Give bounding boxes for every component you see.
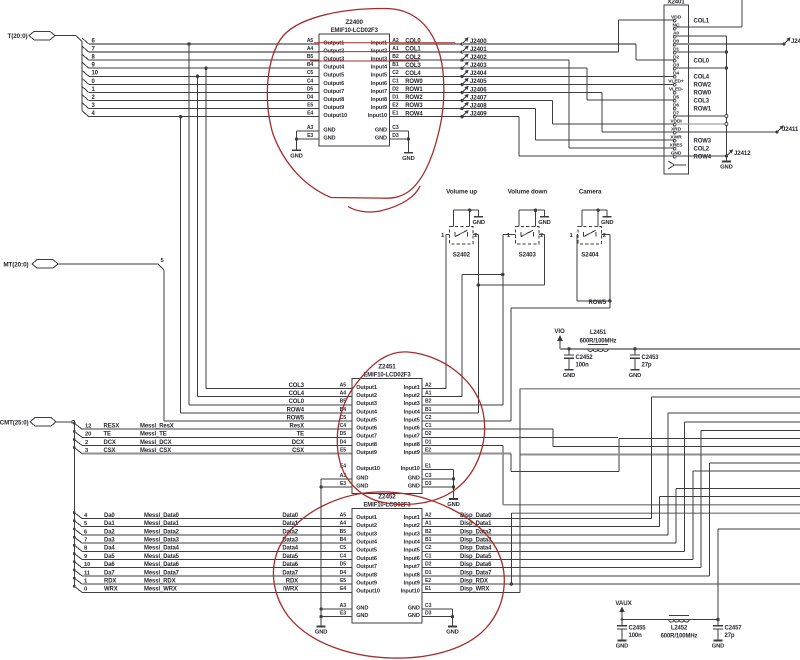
svg-text:ResX: ResX xyxy=(290,424,305,430)
wire A3-E3 to ground xyxy=(297,130,320,132)
svg-text:Output8: Output8 xyxy=(356,572,377,578)
svg-text:Disp_WRX: Disp_WRX xyxy=(460,587,489,593)
bus branch CSX xyxy=(73,446,76,449)
wire port J2410 from D0 xyxy=(676,43,784,45)
svg-text:Input3: Input3 xyxy=(404,401,420,407)
wire COL3 to X2401 D5 xyxy=(462,67,587,69)
svg-text:COL3: COL3 xyxy=(694,99,710,105)
svg-text:Camera: Camera xyxy=(579,189,602,196)
wire COL4 to X2401 D4 xyxy=(462,75,673,77)
svg-text:GND: GND xyxy=(375,127,387,133)
wire net TE to Z2451 xyxy=(82,436,352,438)
wire net DCX to Z2451 xyxy=(82,444,352,446)
bus branch Da3 xyxy=(73,536,76,539)
svg-text:D3: D3 xyxy=(392,133,399,139)
svg-text:Output4: Output4 xyxy=(356,540,378,546)
ground symbol of S2402 xyxy=(474,216,483,218)
wire net bit3 to Z2400 pin xyxy=(89,108,319,110)
wire E2 row xyxy=(422,453,511,455)
wire Disp_WRX to right edge xyxy=(520,388,800,390)
svg-text:E2: E2 xyxy=(425,578,431,584)
svg-text:C3: C3 xyxy=(425,473,432,479)
svg-text:Messl_Data4: Messl_Data4 xyxy=(144,546,180,552)
svg-text:Input2: Input2 xyxy=(404,393,420,399)
svg-text:Disp_RDX: Disp_RDX xyxy=(460,579,488,585)
svg-text:B5: B5 xyxy=(307,54,314,60)
svg-text:Messl_ResX: Messl_ResX xyxy=(140,424,174,430)
wire NC pin from top edge xyxy=(741,0,743,27)
svg-text:27p: 27p xyxy=(642,363,652,369)
wire port J2411 from XRD xyxy=(676,131,777,133)
svg-text:C2452: C2452 xyxy=(576,355,594,361)
svg-text:J2410: J2410 xyxy=(791,38,800,45)
bus branch bit 6 xyxy=(82,38,89,44)
svg-text:E5: E5 xyxy=(340,578,346,584)
svg-text:Output3: Output3 xyxy=(356,401,377,407)
wire net ROW3 from Z2400 to port xyxy=(389,108,462,110)
svg-text:ROW2: ROW2 xyxy=(694,83,712,89)
svg-text:VLED-: VLED- xyxy=(669,86,684,92)
svg-text:Output5: Output5 xyxy=(356,417,377,423)
svg-text:Disp_Data3: Disp_Data3 xyxy=(460,538,492,544)
red strike line Output2 of Z2400 xyxy=(318,51,417,53)
svg-text:E1: E1 xyxy=(425,463,431,469)
ground symbol below Z2452 right xyxy=(448,626,457,628)
svg-text:C3: C3 xyxy=(392,125,399,131)
wire VIO rail xyxy=(560,348,800,350)
wire E2 leg to right edge xyxy=(619,438,800,440)
svg-text:Output7: Output7 xyxy=(356,434,377,440)
svg-text:A5: A5 xyxy=(307,38,314,44)
red ellipse around Z2452 xyxy=(273,492,504,658)
capacitor C2453 27p xyxy=(633,347,636,350)
wire riser Disp_Data3 xyxy=(675,489,677,544)
svg-text:Input6: Input6 xyxy=(404,426,420,432)
svg-text:Da5: Da5 xyxy=(104,554,115,560)
svg-text:D4: D4 xyxy=(307,94,314,100)
svg-text:E3: E3 xyxy=(340,611,346,617)
wire E2 jog xyxy=(511,470,619,472)
wire net bit1 to Z2400 pin xyxy=(89,91,319,93)
wire net RESX to Z2451 xyxy=(82,428,352,430)
wire COL1 to X2401 VDD xyxy=(462,51,619,53)
svg-text:Input8: Input8 xyxy=(404,442,420,448)
svg-text:C2: C2 xyxy=(425,415,432,421)
wire net Disp_Data4 xyxy=(422,550,685,552)
svg-text:GND: GND xyxy=(315,630,328,636)
svg-text:Input5: Input5 xyxy=(371,73,387,79)
svg-text:Messl_Data0: Messl_Data0 xyxy=(144,513,180,519)
svg-text:D5: D5 xyxy=(340,431,347,437)
svg-text:Output6: Output6 xyxy=(356,556,377,562)
svg-text:Output7: Output7 xyxy=(323,89,344,95)
bus branch TE xyxy=(73,430,76,433)
ground symbol of S2403 xyxy=(540,216,549,218)
port J2409 xyxy=(460,115,463,118)
wire riser Disp_Data2 xyxy=(667,413,669,535)
svg-text:GND: GND xyxy=(356,613,368,619)
svg-text:GND: GND xyxy=(323,127,335,133)
bus branch Da0 xyxy=(73,511,76,514)
svg-text:6: 6 xyxy=(84,529,87,535)
svg-text:Messl_Data6: Messl_Data6 xyxy=(144,562,180,568)
wire C3 D3 Z2452 to ground xyxy=(422,608,453,610)
wire ROW2 to X2401 VDDI xyxy=(462,100,553,102)
red strike line Output1 of Z2400 xyxy=(314,42,455,44)
svg-text:E4: E4 xyxy=(340,586,346,592)
svg-text:Disp_Data4: Disp_Data4 xyxy=(460,546,492,552)
svg-text:GND: GND xyxy=(712,644,725,650)
svg-text:Data7: Data7 xyxy=(282,570,298,576)
svg-text:Output9: Output9 xyxy=(323,105,344,111)
junction tap COL4 vertical xyxy=(196,75,199,78)
ground symbol below Z2451 right xyxy=(449,498,458,500)
svg-text:L2451: L2451 xyxy=(590,330,607,336)
svg-text:COL2: COL2 xyxy=(405,55,421,61)
wire A0 to ground rail xyxy=(676,35,726,37)
svg-text:Messl_DCX: Messl_DCX xyxy=(140,440,172,446)
svg-text:GND: GND xyxy=(538,220,551,226)
svg-text:VLED+: VLED+ xyxy=(668,78,684,84)
wire net Disp_Data0 xyxy=(422,518,651,520)
wire D2 row to right xyxy=(422,436,618,438)
wire branch to Z2451 A1 xyxy=(462,274,503,276)
svg-text:100n: 100n xyxy=(629,633,643,639)
svg-text:Output10: Output10 xyxy=(356,466,380,472)
svg-text:E1: E1 xyxy=(425,586,431,592)
svg-text:J2412: J2412 xyxy=(734,150,751,157)
wire net COL2 from Z2400 to port xyxy=(389,59,462,61)
wire riser Disp_Data7 xyxy=(708,463,710,576)
svg-text:B2: B2 xyxy=(392,54,399,60)
svg-text:GND: GND xyxy=(563,373,576,379)
svg-text:CMT(25:0): CMT(25:0) xyxy=(0,420,29,427)
wire S2404 hat xyxy=(581,210,583,226)
wire MT bus xyxy=(58,263,158,265)
wire S2404 pin1 down xyxy=(577,233,578,235)
junction S2404 pins xyxy=(608,299,611,302)
wire net bit7 to Z2400 pin xyxy=(89,51,319,53)
junction S2402 pin2 chain xyxy=(477,283,480,286)
svg-text:COL2: COL2 xyxy=(694,147,710,153)
svg-text:Disp_Data5: Disp_Data5 xyxy=(460,554,492,560)
switch S2402 body xyxy=(450,227,474,244)
svg-text:COL4: COL4 xyxy=(405,71,421,77)
svg-text:MT(20:0): MT(20:0) xyxy=(3,262,28,269)
svg-text:Output5: Output5 xyxy=(356,548,377,554)
svg-text:7: 7 xyxy=(84,538,87,544)
svg-text:S2402: S2402 xyxy=(453,251,471,258)
wire A3 stub Z2451 left xyxy=(321,478,352,480)
wire net RDX to Z2452 xyxy=(82,583,352,585)
bus branch DCX xyxy=(73,438,76,441)
wire Input10 E1 to ground xyxy=(422,469,454,471)
svg-text:Data4: Data4 xyxy=(282,546,298,552)
svg-text:Input10: Input10 xyxy=(401,589,420,595)
svg-text:Input9: Input9 xyxy=(404,581,420,587)
wire E2 riser xyxy=(510,454,512,472)
svg-text:Messl_Data7: Messl_Data7 xyxy=(144,570,180,576)
wire GND pin to rail and port J2412 xyxy=(676,155,726,157)
wire bus T to corner xyxy=(55,35,76,37)
svg-text:Z2400: Z2400 xyxy=(346,19,364,26)
wire ROW4 into Z2451 xyxy=(181,412,352,414)
bus vertical T(20:0) xyxy=(81,42,83,111)
svg-text:Da3: Da3 xyxy=(104,538,115,544)
svg-text:B2: B2 xyxy=(425,529,432,535)
svg-text:TE: TE xyxy=(297,432,305,438)
svg-text:Disp_Data2: Disp_Data2 xyxy=(460,529,492,535)
svg-text:Input5: Input5 xyxy=(404,548,420,554)
wire net Disp_Data2 xyxy=(422,534,668,536)
bus connector hexagon MT(20:0) xyxy=(32,260,58,268)
svg-text:WRX: WRX xyxy=(104,587,118,593)
wire net Da6 to Z2452 xyxy=(82,567,352,569)
svg-text:Volume up: Volume up xyxy=(446,189,477,196)
bus branch bit 1 xyxy=(82,86,89,92)
svg-text:XWR: XWR xyxy=(670,134,682,140)
wire net Disp_RDX to right edge xyxy=(422,583,800,585)
svg-text:A2: A2 xyxy=(425,512,432,518)
svg-text:GND: GND xyxy=(323,136,335,142)
wire VAUX rail xyxy=(622,619,718,621)
svg-text:S2404: S2404 xyxy=(581,251,599,258)
wire net ROW1 from Z2400 to port xyxy=(389,91,462,93)
wire ROW5 leg riser xyxy=(510,513,512,584)
wire D3 stub Z2451 xyxy=(422,486,454,488)
port J2403 xyxy=(460,67,463,70)
svg-text:COL0: COL0 xyxy=(405,39,421,45)
svg-text:Output2: Output2 xyxy=(356,393,377,399)
wire net Disp_Data3 xyxy=(422,542,676,544)
svg-text:XRES: XRES xyxy=(670,142,684,148)
bus branch bit 10 xyxy=(82,70,89,76)
red ellipse around Z2400 xyxy=(267,8,444,198)
junction tap ROW4 vertical xyxy=(179,115,182,118)
svg-text:Disp_Data6: Disp_Data6 xyxy=(460,562,492,568)
svg-text:A1: A1 xyxy=(425,521,432,527)
wire net bit6 to Z2400 pin xyxy=(89,43,319,45)
svg-text:GND: GND xyxy=(629,373,642,379)
svg-text:D3: D3 xyxy=(425,611,432,617)
bus branch RDX xyxy=(73,577,76,580)
ground symbol of S2404 xyxy=(603,216,612,218)
svg-text:GND: GND xyxy=(446,630,459,636)
wire net WRX to Z2452 xyxy=(82,591,352,593)
IC Z2452 body xyxy=(352,509,422,624)
svg-text:Input7: Input7 xyxy=(371,89,387,95)
svg-text:DCX: DCX xyxy=(104,440,116,446)
bus vertical MT bit5 to Z2451 C5 xyxy=(163,270,165,421)
svg-text:Messl_Data3: Messl_Data3 xyxy=(144,538,180,544)
svg-text:ROW5: ROW5 xyxy=(589,300,607,306)
wire D1 to ground rail xyxy=(676,51,726,53)
wire net COL4 from Z2400 to port xyxy=(389,75,462,77)
svg-text:10: 10 xyxy=(84,562,90,568)
svg-text:Da0: Da0 xyxy=(104,513,115,519)
svg-text:VIO: VIO xyxy=(554,328,565,335)
svg-text:B1: B1 xyxy=(392,62,399,68)
svg-text:A5: A5 xyxy=(340,512,347,518)
svg-text:GND: GND xyxy=(616,644,629,650)
svg-text:Input6: Input6 xyxy=(371,81,387,87)
svg-text:X2401: X2401 xyxy=(667,0,685,6)
wire net Disp_WRX xyxy=(422,591,520,593)
svg-text:E3: E3 xyxy=(340,481,346,487)
svg-text:GND: GND xyxy=(408,613,420,619)
IC Z2451 body xyxy=(352,379,422,494)
svg-text:27p: 27p xyxy=(725,633,735,639)
svg-text:Output1: Output1 xyxy=(356,515,377,521)
svg-text:E3: E3 xyxy=(307,133,313,139)
svg-text:C4: C4 xyxy=(307,78,314,84)
port J2406 xyxy=(460,91,463,94)
svg-text:Volume down: Volume down xyxy=(508,189,548,196)
svg-text:D1: D1 xyxy=(392,94,399,100)
wire Disp_WRX riser xyxy=(519,389,521,593)
wire net Disp_Data5 xyxy=(422,559,693,561)
svg-text:/WRX: /WRX xyxy=(283,587,298,593)
switch S2402 contacts and lever xyxy=(454,232,456,237)
ground symbol left of Z2400 xyxy=(292,149,301,151)
svg-text:ROW3: ROW3 xyxy=(405,103,423,109)
wire net Da4 to Z2452 xyxy=(82,550,352,552)
switch S2403 body xyxy=(515,227,539,244)
wire net CSX to Z2451 xyxy=(82,453,352,455)
bus branch Da4 xyxy=(73,544,76,547)
svg-text:Output9: Output9 xyxy=(356,581,377,587)
svg-text:20: 20 xyxy=(85,432,91,438)
svg-text:Input1: Input1 xyxy=(371,40,387,46)
capacitor C2455 100n xyxy=(621,618,624,621)
svg-text:E2: E2 xyxy=(425,447,431,453)
svg-text:9: 9 xyxy=(84,554,87,560)
wire COL0 into Z2451 xyxy=(189,404,352,406)
svg-text:Messl_RDX: Messl_RDX xyxy=(144,579,176,585)
wire riser Disp_Data1 xyxy=(659,496,661,526)
svg-text:Output4: Output4 xyxy=(323,65,345,71)
ground symbol below rail xyxy=(722,161,731,163)
svg-text:GND: GND xyxy=(408,605,420,611)
svg-text:A4: A4 xyxy=(307,46,314,52)
red strike line Output3 of Z2400 xyxy=(310,60,419,62)
wire net bit10 to Z2400 pin xyxy=(89,75,319,77)
svg-text:COL1: COL1 xyxy=(694,19,710,25)
svg-text:Output3: Output3 xyxy=(356,531,377,537)
connector X2401 body xyxy=(664,5,689,174)
wire VAUX riser to right edge xyxy=(717,529,719,619)
svg-text:Data0: Data0 xyxy=(282,513,298,519)
port J2404 xyxy=(460,75,463,78)
wire net ROW2 from Z2400 to port xyxy=(389,100,462,102)
wire gray spur to right edge xyxy=(520,453,800,455)
wire E3 stub Z2452 left xyxy=(321,616,352,618)
svg-text:CSX: CSX xyxy=(104,448,116,454)
svg-text:EMIF10-LCD02F3: EMIF10-LCD02F3 xyxy=(363,372,411,378)
wire net bit0 to Z2400 pin xyxy=(89,83,319,85)
svg-text:Input8: Input8 xyxy=(371,97,387,103)
svg-text:E2: E2 xyxy=(392,103,398,109)
svg-text:Output6: Output6 xyxy=(323,81,344,87)
svg-text:L2452: L2452 xyxy=(671,626,688,632)
wire chain to S2403 pin2 xyxy=(478,284,544,286)
svg-text:GND: GND xyxy=(720,165,733,171)
wire riser Disp_Data6 xyxy=(700,430,702,567)
svg-text:C4: C4 xyxy=(340,553,347,559)
svg-text:Output4: Output4 xyxy=(356,409,378,415)
port J2408 xyxy=(460,107,463,110)
svg-text:GND: GND xyxy=(290,153,303,159)
svg-text:1: 1 xyxy=(570,233,574,239)
svg-text:Input4: Input4 xyxy=(371,65,388,71)
svg-text:RDX: RDX xyxy=(104,579,116,585)
svg-text:Input10: Input10 xyxy=(368,113,387,119)
wire D1 leg to right edge xyxy=(503,504,800,506)
svg-text:C3: C3 xyxy=(425,603,432,609)
wire C2 row into Z2451 xyxy=(422,420,511,422)
svg-text:11: 11 xyxy=(84,570,91,576)
wire D3 to ground rail xyxy=(676,67,726,69)
port J2402 xyxy=(460,59,463,62)
svg-text:GND: GND xyxy=(472,220,485,226)
svg-text:C1: C1 xyxy=(425,423,432,429)
svg-text:5: 5 xyxy=(84,521,88,527)
svg-text:Output10: Output10 xyxy=(356,589,380,595)
svg-text:ROW0: ROW0 xyxy=(694,91,712,97)
svg-text:RESX: RESX xyxy=(104,424,120,430)
svg-text:A3: A3 xyxy=(307,125,314,131)
svg-text:Input1: Input1 xyxy=(404,385,420,391)
switch S2404 body xyxy=(578,227,602,244)
svg-text:100n: 100n xyxy=(576,363,590,369)
capacitor C2452 100n xyxy=(567,347,570,350)
svg-text:C2453: C2453 xyxy=(642,355,660,361)
svg-text:Output9: Output9 xyxy=(356,450,377,456)
switch S2404 contacts and lever xyxy=(583,232,585,237)
svg-text:VAUX: VAUX xyxy=(615,600,632,607)
svg-text:D1: D1 xyxy=(425,439,432,445)
svg-text:Input9: Input9 xyxy=(371,105,387,111)
switch S2403 contacts and lever xyxy=(520,232,522,237)
wire ROW0 to X2401 VLED+ xyxy=(462,83,673,85)
wire COL3 into Z2451 xyxy=(206,388,352,390)
svg-text:C2455: C2455 xyxy=(629,626,647,632)
svg-text:J2411: J2411 xyxy=(782,126,799,133)
bus branch Da6 xyxy=(73,560,76,563)
svg-text:Input4: Input4 xyxy=(404,540,421,546)
svg-text:ROW0: ROW0 xyxy=(405,79,423,85)
svg-text:5: 5 xyxy=(161,258,165,264)
svg-text:Messl_WRX: Messl_WRX xyxy=(144,587,177,593)
bus branch bit 8 xyxy=(82,54,89,60)
svg-text:A1: A1 xyxy=(392,46,399,52)
ground symbol right of Z2400 xyxy=(404,152,413,154)
wire net Disp_Data7 xyxy=(422,575,709,577)
svg-text:B4: B4 xyxy=(340,537,347,543)
svg-text:Output8: Output8 xyxy=(356,442,377,448)
bus branch WRX xyxy=(73,585,76,588)
wire ROW5 to Z2451 C2 xyxy=(511,307,610,309)
wire S2402 pin2 down xyxy=(473,233,478,235)
svg-text:C1: C1 xyxy=(392,78,399,84)
svg-text:GND: GND xyxy=(408,483,420,489)
svg-text:3: 3 xyxy=(85,448,88,454)
svg-text:TE: TE xyxy=(104,432,112,438)
wire ROW4 to X2401 GND pin xyxy=(462,116,519,118)
wire COL4 into Z2451 xyxy=(198,396,353,398)
svg-text:D4: D4 xyxy=(340,570,347,576)
svg-text:A3: A3 xyxy=(340,603,347,609)
